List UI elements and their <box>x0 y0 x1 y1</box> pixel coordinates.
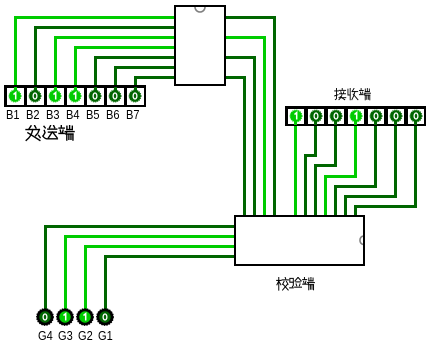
sender indicator B3 = 1 <box>46 87 64 105</box>
receiver indicator 4 = 1 <box>347 107 365 125</box>
wire receiver R3 to checker U2 <box>334 120 337 168</box>
wire receiver R1 to checker U2 <box>294 120 297 218</box>
wire B1 to encoder U1 pin 1 <box>14 16 17 93</box>
sender indicator B5 = 0 <box>86 87 104 105</box>
wire checker U2 output to LED G2 <box>84 245 238 248</box>
LED G3 = 1 <box>54 306 76 328</box>
wire B2 to encoder U1 pin 2 <box>34 26 37 93</box>
wire stub into sender cell B5 <box>94 87 97 92</box>
wire stub into sender cell B7 <box>134 87 137 92</box>
wire encoder U1 output 4 to checker U2 <box>223 76 247 79</box>
receiver indicator 7 = 0 <box>407 107 425 125</box>
wire B7 to encoder U1 pin 7 <box>134 76 137 93</box>
sender indicator B6 = 0 <box>106 87 124 105</box>
receiver indicator 2 = 0 <box>307 107 325 125</box>
IC U1 notch <box>190 7 210 17</box>
wire stub into sender cell B2 <box>34 87 37 92</box>
wire checker U2 output to LED G1 <box>104 255 238 258</box>
wire B3 to encoder U1 pin 3 <box>54 36 57 93</box>
wire receiver R6 to checker U2 <box>394 120 397 198</box>
wire encoder U1 output 2 to checker U2 <box>223 36 267 39</box>
wire B6 to encoder U1 pin 6 <box>114 66 117 93</box>
wire receiver R4 to checker U2 <box>354 120 357 178</box>
checker IC U2 <box>234 215 365 266</box>
wire stub below receiver cell 6 <box>394 120 397 126</box>
receiver indicator 5 = 0 <box>367 107 385 125</box>
wire B5 to encoder U1 pin 5 <box>94 56 97 93</box>
receiver indicator 6 = 0 <box>387 107 405 125</box>
LED G4 = 0 <box>34 306 56 328</box>
node labels B1-B7 <box>6 107 20 122</box>
receiver terminal block <box>285 106 426 126</box>
LED G2 = 1 <box>74 306 96 328</box>
wire stub below receiver cell 2 <box>314 120 317 126</box>
wire stub below receiver cell 1 <box>294 120 297 126</box>
receiver indicator 1 = 1 <box>287 107 305 125</box>
wire encoder U1 output 1 to checker U2 <box>223 16 277 19</box>
wire receiver R5 to checker U2 <box>374 120 377 188</box>
LED G1 = 0 <box>94 306 116 328</box>
sender terminal block B1-B7 <box>4 85 146 107</box>
wire receiver R7 to checker U2 <box>414 120 417 208</box>
node labels G4-G1 <box>38 328 53 343</box>
wire stub into sender cell B6 <box>114 87 117 92</box>
wire stub into sender cell B4 <box>74 87 77 92</box>
sender indicator B7 = 0 <box>126 87 144 105</box>
encoder IC U1 <box>174 5 226 86</box>
label 接收端 (receiver) <box>334 88 371 101</box>
wire stub into sender cell B3 <box>54 87 57 92</box>
wire encoder U1 output 3 to checker U2 <box>223 56 257 59</box>
wire stub below receiver cell 4 <box>354 120 357 126</box>
wire stub below receiver cell 7 <box>414 120 417 126</box>
wire receiver R2 to checker U2 <box>314 120 317 157</box>
sender indicator B1 = 1 <box>6 87 24 105</box>
sender indicator B4 = 1 <box>66 87 84 105</box>
wire stub below receiver cell 5 <box>374 120 377 126</box>
label 发送端 (sender) <box>25 125 75 142</box>
IC U2 notch <box>353 232 363 248</box>
wire stub below receiver cell 3 <box>334 120 337 126</box>
wire checker U2 output to LED G3 <box>64 235 238 238</box>
wire B4 to encoder U1 pin 4 <box>74 46 77 93</box>
wire stub into sender cell B1 <box>14 87 17 92</box>
sender indicator B2 = 0 <box>26 87 44 105</box>
wire checker U2 output to LED G4 <box>44 225 238 228</box>
label 校验端 (checker) <box>276 277 315 291</box>
receiver indicator 3 = 0 <box>327 107 345 125</box>
